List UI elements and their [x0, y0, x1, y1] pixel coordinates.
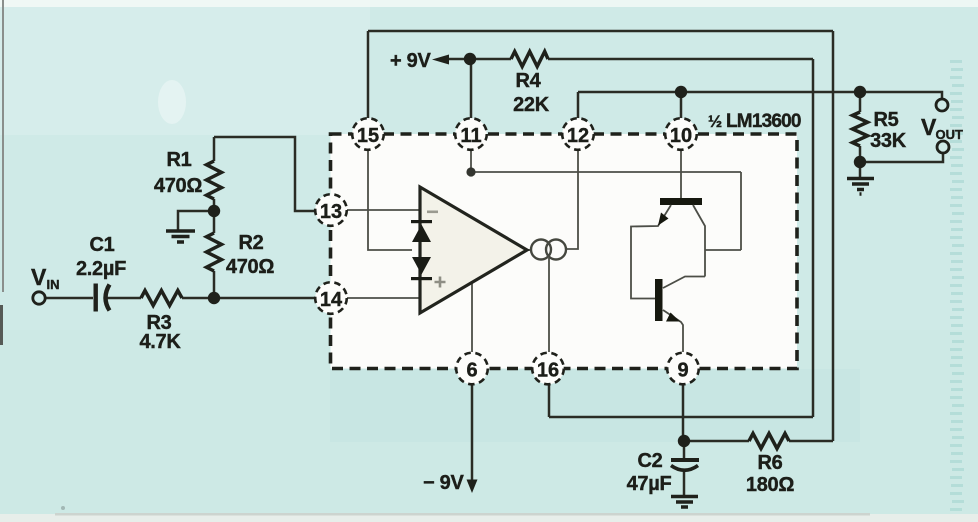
pin 9 — [667, 353, 699, 385]
IC U1 dashed body (1/2 LM13600) — [331, 134, 798, 369]
+9V arrow — [432, 55, 449, 65]
junction dot: R5 top / output rail — [854, 86, 866, 98]
wire: C1 to R3 left lead — [107, 297, 141, 300]
svg-text:R5: R5 — [874, 109, 899, 131]
terminal: Vout upper — [936, 99, 948, 111]
wire: node C rail y=172 to collector feed — [471, 171, 741, 173]
op-amp inverting input marker — [427, 211, 438, 214]
junction dot: node C (pin11 inside) — [466, 167, 475, 176]
wire: pin13 inside to op-amp inverting input — [347, 209, 420, 211]
capacitor C1 (2.2uF) plate — [94, 284, 98, 312]
capacitor C2 (47uF) plate — [671, 458, 699, 462]
wire: pin16 drop to return rail — [548, 384, 551, 417]
diode D1 (up arrow) — [412, 225, 431, 243]
svg-text:R2: R2 — [239, 232, 264, 254]
svg-text:LM13600: LM13600 — [726, 111, 801, 132]
wire: output rail y=92 from pin12 to Vout — [578, 92, 942, 99]
wire: collector feed horizontal to Q1/Q2 collectors — [705, 249, 741, 251]
svg-text:470Ω: 470Ω — [226, 256, 274, 278]
svg-text:180Ω: 180Ω — [746, 474, 794, 496]
wire: apex to current mirror — [527, 249, 531, 251]
wire: pin6 drop to -9V arrow — [471, 384, 474, 489]
svg-text:33K: 33K — [870, 130, 907, 152]
wire: collector feed vertical x=741 — [740, 172, 742, 250]
resistor R6 (180 ohm, horizontal) — [749, 434, 789, 449]
junction dot: R5 bottom / ground node — [854, 156, 866, 168]
svg-text:4.7K: 4.7K — [139, 331, 181, 353]
wire: pin11 top riser — [470, 59, 473, 118]
pin 12 — [562, 118, 594, 150]
junction dot: pin10/output rail — [675, 86, 687, 98]
svg-text:22K: 22K — [513, 94, 550, 116]
svg-text:½: ½ — [708, 112, 722, 131]
-9V arrow — [467, 480, 478, 494]
wire: pin11 riser inside to node C — [470, 150, 472, 172]
svg-text:− 9V: − 9V — [423, 472, 464, 494]
svg-text:R1: R1 — [167, 149, 192, 171]
svg-text:9: 9 — [677, 360, 688, 382]
wire: R5 top lead from output rail node — [859, 92, 862, 112]
resistor R3 (4.7K, horizontal) — [141, 291, 182, 306]
svg-text:15: 15 — [357, 125, 379, 147]
wire: +9V feed to pin11 node — [444, 58, 470, 61]
junction dot: pin9/C2/R6 node — [678, 435, 690, 447]
svg-text:13: 13 — [320, 201, 342, 223]
wire: pin15 riser to top rail — [367, 31, 370, 118]
wire: R1 top rail over to pin13 — [214, 137, 315, 211]
pin 14 — [315, 282, 347, 314]
wire: C2 bottom lead to ground — [683, 472, 686, 495]
transistor Q1 base bar — [660, 198, 702, 205]
svg-text:11: 11 — [460, 125, 481, 147]
junction dot: node B (R1/R2/ground) — [208, 205, 220, 217]
terminal: Vout lower — [937, 141, 949, 153]
wire: pin9 drop to C2/R6 node — [682, 384, 685, 441]
svg-text:16: 16 — [537, 360, 559, 382]
resistor R2 (470 ohm, vertical) — [207, 233, 222, 271]
svg-text:10: 10 — [670, 125, 692, 147]
wire: bottom return y=417 to pin16 drop — [549, 416, 813, 419]
wire: R2 top stub to node B — [213, 211, 216, 233]
terminal: Vin — [33, 292, 45, 304]
transistor Q1 emitter arrow — [658, 213, 669, 226]
diode D2 (cathode bar) — [411, 277, 432, 280]
resistor R4 (22K, horizontal) — [511, 52, 548, 67]
svg-text:470Ω: 470Ω — [154, 175, 202, 197]
wire: right vertical x=813 (R4 to bottom return) — [812, 59, 815, 417]
transistor Q1 emitter — [631, 205, 671, 299]
op-amp non-inverting input marker — [435, 277, 446, 288]
junction dot: +9V / pin11 node — [464, 53, 476, 65]
scan edge artifacts — [2, 0, 4, 292]
wire: pin6 riser inside to op-amp — [471, 283, 473, 353]
transistor Q2 collector — [663, 277, 705, 289]
transistor Q2 emitter arrow — [666, 313, 680, 322]
transistor Q2 emitter — [663, 310, 683, 352]
wire: R3 right lead to node A — [182, 297, 214, 300]
wire: C2 top lead — [683, 441, 686, 458]
diode D1 (cathode bar) — [411, 220, 432, 223]
pin 6 — [456, 353, 488, 385]
svg-text:R6: R6 — [758, 452, 783, 474]
wire: pin12 top riser — [577, 92, 580, 118]
wire: right vertical x=833 (top rail to R6) — [832, 31, 835, 441]
wire: R2 bottom stub — [213, 271, 216, 298]
svg-text:C1: C1 — [90, 234, 115, 256]
diode D2 (down arrow) — [412, 257, 431, 275]
junction dot: node A (R3/R2/pin14) — [208, 292, 220, 304]
svg-text:6: 6 — [466, 360, 477, 382]
wire: op-amp output to pin12 riser inside — [566, 150, 578, 249]
wire: current mirror to pin16 riser inside — [548, 258, 550, 352]
svg-text:R4: R4 — [516, 70, 542, 92]
wire: R1 top lead — [213, 137, 216, 161]
ground G3 (under C2) — [671, 497, 698, 508]
op-amp A1 triangle — [420, 187, 527, 313]
wire: R1 bottom stub to node B — [213, 199, 216, 211]
pin 16 — [532, 353, 564, 385]
wire: Vin terminal to C1 — [46, 297, 93, 300]
pin 15 — [352, 118, 384, 150]
wire: node A to pin14 — [214, 297, 315, 300]
transistor Q2 base bar — [655, 279, 663, 321]
wire: R6 right lead to x=833 vertical — [789, 440, 833, 443]
wire: pin11 node to R4 left lead — [470, 58, 511, 61]
wire: R5 ground node to lower Vout terminal — [860, 153, 943, 162]
svg-text:C2: C2 — [638, 450, 663, 472]
svg-text:V: V — [31, 264, 47, 290]
svg-text:2.2µF: 2.2µF — [76, 258, 126, 280]
wire: pin10 top riser to output rail — [680, 92, 683, 118]
wire: node B to ground G1 — [178, 211, 214, 230]
current mirror symbol (double circles) — [531, 240, 551, 260]
svg-text:IN: IN — [47, 277, 60, 292]
wire: top rail (pin15 to right vertical) — [368, 30, 833, 33]
capacitor C2 curved plate — [671, 466, 698, 471]
capacitor C1 curved plate — [106, 285, 110, 311]
transistor Q1 collector — [693, 205, 705, 277]
svg-text:OUT: OUT — [936, 127, 964, 142]
wire: pin15 riser inside to diode midpoint — [368, 150, 412, 250]
wire: pin10 riser inside to Q1 base — [680, 150, 682, 198]
resistor R1 (470 ohm, vertical) — [207, 161, 222, 199]
ground G2 (under R5) — [847, 179, 874, 195]
wire: R5 bottom lead to ground node — [859, 146, 862, 162]
pin 13 — [315, 194, 347, 226]
pin 10 — [665, 118, 697, 150]
svg-text:47µF: 47µF — [627, 473, 672, 495]
wire: pin14 inside to op-amp non-inverting input — [347, 297, 420, 299]
pin 11 — [455, 118, 487, 150]
svg-text:+ 9V: + 9V — [390, 50, 431, 72]
wire: R4 right lead to x=813 vertical — [548, 58, 813, 61]
ground G1 (R1/R2 node) — [166, 231, 195, 242]
wire: node at pin9/C2/R6 junction to R6 left lead — [684, 440, 749, 443]
svg-text:12: 12 — [567, 125, 589, 147]
wire: R5 ground stub — [859, 162, 862, 177]
svg-text:14: 14 — [320, 289, 343, 311]
resistor R5 (33K, vertical) — [853, 112, 868, 146]
